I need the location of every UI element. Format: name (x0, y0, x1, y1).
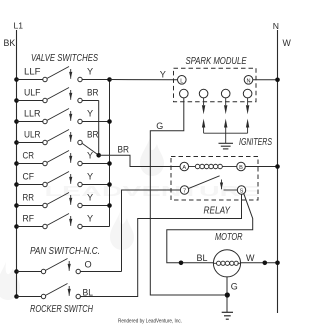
svg-text:BR: BR (87, 129, 99, 139)
svg-text:RELAY: RELAY (204, 206, 232, 217)
svg-text:BL: BL (83, 287, 94, 297)
svg-text:LLR: LLR (24, 108, 41, 118)
svg-text:BR: BR (87, 87, 99, 97)
svg-text:VALVE SWITCHES: VALVE SWITCHES (31, 53, 98, 64)
svg-text:MOTOR: MOTOR (215, 232, 243, 243)
svg-text:B: B (239, 165, 243, 171)
svg-text:Rendered by LeadVenture, Inc.: Rendered by LeadVenture, Inc. (118, 319, 182, 325)
svg-text:PAN SWITCH-N.C.: PAN SWITCH-N.C. (30, 246, 100, 257)
svg-text:CR: CR (23, 150, 35, 160)
svg-text:L: L (180, 78, 183, 84)
svg-text:ULF: ULF (24, 87, 41, 97)
svg-text:G: G (156, 121, 163, 131)
svg-text:ULR: ULR (24, 129, 41, 139)
svg-text:Y: Y (87, 213, 93, 223)
svg-text:7: 7 (183, 189, 186, 195)
svg-text:Y: Y (87, 108, 93, 118)
svg-text:SPARK MODULE: SPARK MODULE (186, 56, 247, 67)
svg-text:Y: Y (87, 150, 93, 160)
svg-text:Y: Y (87, 171, 93, 181)
svg-text:L1: L1 (14, 21, 24, 31)
svg-text:RF: RF (23, 213, 35, 223)
svg-text:ROCKER SWITCH: ROCKER SWITCH (30, 304, 94, 315)
svg-text:BL: BL (197, 253, 208, 263)
svg-text:Y: Y (160, 69, 166, 79)
svg-text:BK: BK (4, 38, 16, 48)
svg-text:N: N (246, 78, 250, 84)
svg-text:A: A (182, 165, 186, 171)
svg-text:BR: BR (118, 144, 130, 154)
svg-text:N: N (273, 21, 279, 31)
svg-text:RR: RR (23, 192, 35, 202)
svg-text:IGNITERS: IGNITERS (239, 137, 272, 148)
svg-text:S: S (240, 189, 244, 195)
svg-text:W: W (246, 253, 255, 263)
svg-text:W: W (283, 38, 292, 48)
svg-text:LLF: LLF (24, 66, 41, 76)
svg-text:Y: Y (87, 192, 93, 202)
svg-text:O: O (85, 260, 92, 270)
svg-text:CF: CF (23, 171, 35, 181)
svg-text:Y: Y (87, 66, 93, 76)
svg-text:G: G (231, 282, 238, 292)
svg-text:LEADVENTURE: LEADVENTURE (45, 183, 260, 200)
